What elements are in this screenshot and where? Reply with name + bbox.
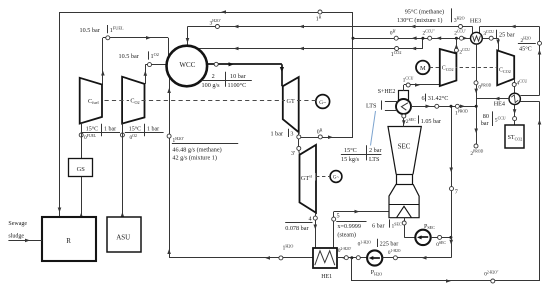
wire 3' into GTst xyxy=(298,151,301,155)
svg-text:100 g/s: 100 g/s xyxy=(202,82,221,89)
svg-text:1100°C: 1100°C xyxy=(228,82,247,89)
wire sewage sludge feed xyxy=(8,240,42,242)
callout blue line LTS xyxy=(371,111,376,146)
pump PH2O xyxy=(367,250,382,265)
svg-text:130°C (mixture 1): 130°C (mixture 1) xyxy=(397,17,442,24)
vessel S+HE2 xyxy=(399,91,409,101)
svg-text:ASU: ASU xyxy=(116,233,130,241)
svg-text:GS: GS xyxy=(77,166,86,173)
label GTst xyxy=(301,173,316,181)
node 1R xyxy=(318,10,322,14)
box reactor R xyxy=(42,217,96,261)
wire R to GS xyxy=(81,177,83,217)
svg-text:80: 80 xyxy=(483,113,489,120)
svg-text:1 bar: 1 bar xyxy=(104,127,116,133)
svg-text:M: M xyxy=(420,65,426,72)
svg-text:PSEC: PSEC xyxy=(424,224,435,230)
node 3H2O' xyxy=(215,25,219,29)
steam turbine GTst xyxy=(300,145,317,213)
svg-text:CCO2: CCO2 xyxy=(499,67,511,73)
label GT xyxy=(285,98,297,104)
generator G1 xyxy=(316,95,330,109)
svg-text:GT: GT xyxy=(287,98,295,105)
svg-text:31.42°C: 31.42°C xyxy=(428,95,449,102)
svg-text:95°C (methane): 95°C (methane) xyxy=(405,8,444,15)
wire 1CCU from S+HE2 to C1 xyxy=(403,85,405,91)
svg-text:PH2O: PH2O xyxy=(371,270,382,276)
wire WCC outlet stream 2 (thick) xyxy=(207,63,282,65)
wire HE3 water stubs xyxy=(472,27,474,34)
wire HE4 cooling water right stubs xyxy=(520,95,539,97)
node 1FUEL xyxy=(106,36,110,40)
compressor C_CO2 no2 xyxy=(497,50,514,85)
wire PSEC suction xyxy=(431,237,452,239)
svg-text:S+HE2: S+HE2 xyxy=(378,89,396,95)
node 3CCU xyxy=(489,36,493,40)
label CO2 compressor xyxy=(129,97,142,104)
wire GS to Cfuel xyxy=(81,123,83,158)
wire condensate y=257.9 HE1 to riser xyxy=(169,257,279,259)
wire ASU to CO2comp xyxy=(122,123,124,217)
node 0 1-H2O left xyxy=(356,256,360,260)
svg-text:HE4: HE4 xyxy=(494,100,505,107)
svg-text:R: R xyxy=(66,237,71,245)
shaft GTst generator dashed xyxy=(310,176,330,178)
wire HE1 right to pump PH2O xyxy=(337,257,367,259)
SEC internal distributor triangle xyxy=(397,206,412,217)
combustor WCC xyxy=(167,46,208,87)
wire 1SEC to pump PSEC xyxy=(404,225,406,237)
svg-text:G~: G~ xyxy=(319,100,326,106)
box GS xyxy=(69,159,93,177)
shaft gas turbine dashed xyxy=(105,100,316,102)
svg-text:LTS: LTS xyxy=(366,103,377,110)
wire S to 2SEC to SEC xyxy=(403,114,405,127)
junction cooling water branch xyxy=(350,256,353,259)
wire CO2 recycle y=48.5 (1CO2 to WCC) xyxy=(198,48,423,50)
wire fuel 10.5bar y=37.8 (1FUEL to WCC) xyxy=(110,37,168,39)
wire HE3 bottom PROD line xyxy=(476,44,478,146)
svg-text:1.05 bar: 1.05 bar xyxy=(421,118,441,125)
wire hot water return y=26.5 (2H2O->3H2O'->WCC) xyxy=(480,26,540,28)
svg-text:10.5 bar: 10.5 bar xyxy=(119,53,139,60)
node 0 2-H2O' xyxy=(344,256,348,260)
svg-text:HE3: HE3 xyxy=(470,17,481,24)
svg-text:sludge: sludge xyxy=(8,234,24,240)
wire HE4 left outlet to PROD junction xyxy=(476,98,509,100)
svg-text:x=0.9999: x=0.9999 xyxy=(337,223,361,230)
compressor CO2comp xyxy=(122,77,144,124)
node 0SEC xyxy=(438,235,442,239)
node 1H2O' xyxy=(167,134,171,138)
wire HE3 to C2 (3CCU 25 bar) xyxy=(482,38,498,40)
svg-text:HE1: HE1 xyxy=(321,274,332,280)
pump PSEC xyxy=(415,230,430,245)
wire GT exhaust 0R (y=137) xyxy=(299,137,353,139)
svg-text:3: 3 xyxy=(290,131,293,138)
shaft CO2 compressors dashed xyxy=(430,67,498,69)
svg-text:3′: 3′ xyxy=(291,151,296,157)
svg-text:15°C: 15°C xyxy=(344,147,357,154)
wire 3 to 3' xyxy=(298,139,300,146)
node 2SEC xyxy=(402,114,406,118)
wire riser 2CCU'' split xyxy=(422,38,424,48)
label C_CO2 no2 xyxy=(498,65,513,72)
wire C2 outlet 4CCU to HE4 xyxy=(514,79,516,83)
separator S circle xyxy=(396,99,411,114)
node 6a xyxy=(435,104,439,108)
tank ST_CO2 xyxy=(505,125,524,148)
label C_CO2 no1 xyxy=(441,63,456,70)
svg-text:42 g/s (mixture 1): 42 g/s (mixture 1) xyxy=(172,155,217,162)
node 2CCU'' xyxy=(428,36,432,40)
wire recycle top 1R (y=12) xyxy=(60,12,354,14)
wire HE1 to node 5 to SEC xyxy=(333,219,335,248)
node 2CCU' xyxy=(459,36,463,40)
wire CCU row y=38.3 (0R' / 2CCU'' / 2CCU') xyxy=(353,38,471,40)
generator G2 xyxy=(330,171,342,183)
node 5 xyxy=(332,217,336,221)
svg-text:6: 6 xyxy=(422,95,425,102)
wire into ST tank xyxy=(514,121,516,125)
wire SEC bottom to 1SEC node xyxy=(404,218,406,221)
compressor Cfuel xyxy=(80,78,102,124)
svg-text:5: 5 xyxy=(337,212,340,219)
wire GTst exit to node 4 xyxy=(315,213,317,216)
node 0R xyxy=(318,135,322,139)
svg-text:0.078 bar: 0.078 bar xyxy=(285,225,308,232)
svg-text:225 bar: 225 bar xyxy=(380,240,399,247)
label Cfuel xyxy=(87,97,101,104)
svg-text:(steam): (steam) xyxy=(337,231,356,238)
turbine GT xyxy=(283,77,299,132)
node 0 1-H2O right xyxy=(393,256,397,260)
wire drop into WCC top (3H2O') xyxy=(187,27,189,46)
node 1PROD source xyxy=(455,104,459,108)
heat exchanger HE1 xyxy=(313,248,337,268)
node 0O2 xyxy=(120,133,124,137)
node 2CCU xyxy=(454,48,458,52)
node 0R' xyxy=(394,36,398,40)
svg-text:10 bar: 10 bar xyxy=(230,73,246,80)
wire vertical x=451 (6 liquid down to pumps) xyxy=(451,106,453,257)
junction recycle/0R' xyxy=(352,37,355,40)
node 0PROD xyxy=(474,81,478,85)
node 1CO2 xyxy=(395,47,399,51)
wire cooling water bottom loop xyxy=(351,258,353,281)
svg-text:STCO2: STCO2 xyxy=(508,135,523,141)
node 1SEC xyxy=(402,221,406,225)
heat exchanger HE4 xyxy=(509,93,520,104)
wire recycle left side into reactor R xyxy=(59,12,61,217)
junction node7 line / PSEC xyxy=(449,236,452,239)
wire recycle riser x=353 (GT exhaust up to top) xyxy=(352,12,354,137)
wire WCC inlet riser 1H2O' x=169.1 xyxy=(169,76,171,258)
junction to node 7 branch xyxy=(450,105,453,108)
svg-text:LTS: LTS xyxy=(369,156,380,163)
node 3' xyxy=(297,146,301,150)
node 3 (GT exit) xyxy=(298,132,300,135)
node 0FUEL xyxy=(79,133,83,137)
svg-text:G~: G~ xyxy=(333,176,340,181)
svg-text:2: 2 xyxy=(212,73,215,80)
svg-text:15 kg/s: 15 kg/s xyxy=(341,156,360,163)
svg-text:7: 7 xyxy=(455,188,458,195)
svg-text:SEC: SEC xyxy=(398,143,411,151)
wire 4 into HE1 xyxy=(315,220,317,248)
node 2H2O (45C) xyxy=(538,41,542,45)
svg-text:15°C: 15°C xyxy=(129,126,141,133)
svg-text:2 bar: 2 bar xyxy=(369,147,382,154)
node 5CCU xyxy=(513,117,517,121)
column SEC xyxy=(388,127,421,175)
svg-text:bar: bar xyxy=(481,120,489,127)
svg-text:1 bar: 1 bar xyxy=(147,127,159,133)
node 2 xyxy=(214,62,218,66)
svg-text:WCC: WCC xyxy=(179,61,195,69)
svg-text:CCO2: CCO2 xyxy=(442,66,454,72)
motor M xyxy=(416,61,430,75)
svg-text:25 bar: 25 bar xyxy=(499,31,515,38)
node 1O2 xyxy=(148,63,152,67)
svg-text:15°C: 15°C xyxy=(86,126,98,133)
wire C1 outlet riser x=456.4 xyxy=(456,38,458,53)
heat exchanger HE3 xyxy=(471,32,483,44)
wire O2 10.5bar y=64.6 (1O2 to WCC) xyxy=(152,64,167,66)
wire S liquid outlet y=106.3 xyxy=(411,106,476,108)
svg-text:46.48 g/s (methane): 46.48 g/s (methane) xyxy=(172,146,221,153)
node 7 xyxy=(450,187,454,191)
svg-text:6 bar: 6 bar xyxy=(372,222,385,229)
node 3H2O xyxy=(459,25,463,29)
box ASU xyxy=(107,217,141,252)
wire HE4 bottom to 5CCU/ST xyxy=(514,105,516,117)
svg-text:10.5 bar: 10.5 bar xyxy=(80,27,100,34)
node 2PROD xyxy=(474,144,478,148)
svg-text:1 bar: 1 bar xyxy=(271,131,284,138)
wire right-side riser to 2H2O node xyxy=(539,27,541,44)
compressor C_CO2 no1 xyxy=(440,49,457,86)
svg-text:4: 4 xyxy=(309,215,312,222)
node 4 xyxy=(313,216,317,220)
wire pump PH2O inlet from node7 drop xyxy=(382,257,451,259)
svg-text:45°C: 45°C xyxy=(519,46,532,53)
node 1CCU xyxy=(406,83,410,87)
svg-text:Sewage: Sewage xyxy=(8,221,27,227)
node 1H2O xyxy=(279,256,283,260)
